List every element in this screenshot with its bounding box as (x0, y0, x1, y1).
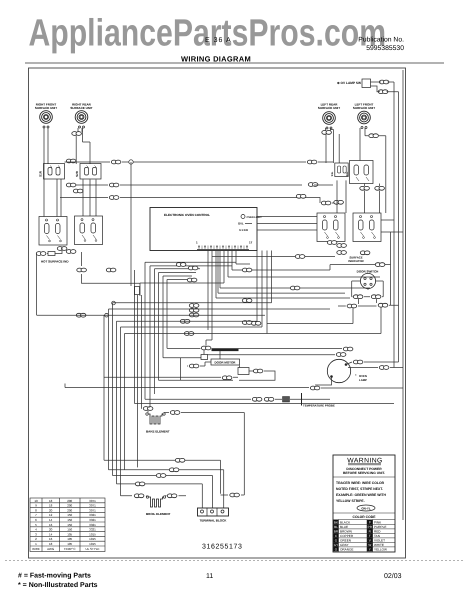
svg-text:5: 5 (35, 523, 37, 527)
svg-text:16: 16 (49, 537, 53, 541)
svg-text:14: 14 (49, 532, 53, 536)
svg-text:150: 150 (67, 513, 72, 517)
svg-text:TAN: TAN (374, 534, 380, 538)
svg-text:18: 18 (49, 499, 53, 503)
svg-text:TRACER WIRE: WIRE COLOR: TRACER WIRE: WIRE COLOR (336, 481, 385, 485)
svg-text:UL STYLE: UL STYLE (85, 547, 99, 551)
svg-text:12: 12 (49, 513, 53, 517)
svg-text:EXAMPLE: GREEN WIRE WITH: EXAMPLE: GREEN WIRE WITH (336, 493, 386, 497)
svg-text:8: 8 (35, 508, 37, 512)
svg-text:WIRE: WIRE (32, 547, 40, 551)
svg-text:HOT SURFACE IND: HOT SURFACE IND (41, 260, 69, 264)
svg-text:NOTED FIRST, STRIPE NEXT.: NOTED FIRST, STRIPE NEXT. (336, 487, 383, 491)
svg-text:P: P (369, 521, 371, 525)
svg-text:SURFACE UNIT: SURFACE UNIT (35, 106, 57, 110)
svg-text:WHITE: WHITE (374, 543, 384, 547)
svg-text:200: 200 (67, 499, 72, 503)
svg-text:6: 6 (35, 518, 37, 522)
svg-text:SURFACE UNIT: SURFACE UNIT (318, 106, 340, 110)
svg-text:VIOLET: VIOLET (374, 539, 385, 543)
svg-text:YELLOW STRIPE.: YELLOW STRIPE. (336, 499, 365, 503)
svg-text:02/03: 02/03 (384, 572, 402, 580)
svg-text:3.1 KΩ: 3.1 KΩ (239, 228, 249, 232)
svg-text:3321: 3321 (89, 518, 96, 522)
svg-text:3: 3 (35, 532, 37, 536)
svg-text:316255173: 316255173 (202, 544, 242, 551)
svg-text:PURPLE: PURPLE (374, 525, 386, 529)
svg-text:DOOR MOTOR: DOOR MOTOR (215, 361, 237, 365)
svg-text:3321: 3321 (89, 523, 96, 527)
svg-text:1015: 1015 (89, 537, 96, 541)
svg-text:17: 17 (249, 241, 253, 245)
svg-text:⊕ OV LAMP SW: ⊕ OV LAMP SW (337, 81, 361, 85)
svg-text:*: * (355, 373, 357, 378)
svg-text:BAKE ELEMENT: BAKE ELEMENT (146, 430, 170, 434)
svg-text:18: 18 (49, 504, 53, 508)
svg-text:105: 105 (67, 542, 72, 546)
svg-text:COLOR CODE: COLOR CODE (353, 515, 377, 519)
svg-text:Y: Y (369, 548, 371, 552)
svg-text:DOOR SWITCH: DOOR SWITCH (357, 269, 379, 273)
svg-text:BROIL ELEMENT: BROIL ELEMENT (146, 512, 171, 516)
svg-text:GN-YL: GN-YL (361, 507, 371, 511)
svg-text:SURFACE UNIT: SURFACE UNIT (353, 106, 375, 110)
svg-text:ORANGE: ORANGE (340, 548, 353, 552)
svg-text:9: 9 (35, 504, 37, 508)
svg-text:S1R: S1R (39, 170, 43, 177)
svg-text:BLUE: BLUE (340, 525, 348, 529)
svg-text:TERMINAL BLOCK: TERMINAL BLOCK (200, 519, 228, 523)
svg-text:20: 20 (49, 508, 53, 512)
svg-text:1015: 1015 (89, 532, 96, 536)
svg-text:AppliancePartsPros.com: AppliancePartsPros.com (28, 13, 386, 55)
svg-text:OVL: OVL (238, 222, 244, 226)
svg-text:200: 200 (67, 508, 72, 512)
svg-text:3071: 3071 (89, 499, 96, 503)
svg-text:3321: 3321 (89, 528, 96, 532)
svg-text:1: 1 (196, 241, 198, 245)
svg-text:S2R: S2R (75, 170, 79, 177)
svg-text:AWG: AWG (47, 547, 55, 551)
svg-text:1015: 1015 (89, 542, 96, 546)
svg-text:GREEN: GREEN (340, 539, 351, 543)
svg-text:S2L: S2L (346, 171, 349, 176)
svg-text:# = Fast-moving Parts: # = Fast-moving Parts (18, 572, 91, 580)
svg-text:SURFACE UNIT: SURFACE UNIT (70, 106, 92, 110)
svg-text:105: 105 (67, 532, 72, 536)
svg-text:5995385530: 5995385530 (366, 45, 404, 52)
svg-text:PR: PR (368, 525, 373, 529)
svg-text:150: 150 (67, 518, 72, 522)
svg-text:200: 200 (67, 504, 72, 508)
svg-text:150: 150 (67, 523, 72, 527)
svg-text:INDICATOR: INDICATOR (348, 259, 363, 263)
svg-text:BEFORE SERVICING UNIT.: BEFORE SERVICING UNIT. (343, 471, 385, 475)
svg-text:10: 10 (34, 499, 38, 503)
svg-text:COPPER: COPPER (340, 534, 354, 538)
svg-text:2: 2 (35, 537, 37, 541)
svg-text:7: 7 (35, 513, 37, 517)
svg-text:TEMPERATURE PROBE: TEMPERATURE PROBE (303, 404, 335, 408)
svg-text:GY: GY (334, 543, 338, 547)
svg-text:* = Non-Illustrated Parts: * = Non-Illustrated Parts (18, 581, 98, 589)
svg-text:PINK: PINK (374, 521, 382, 525)
svg-text:BROWN: BROWN (340, 530, 352, 534)
svg-text:18: 18 (49, 542, 53, 546)
svg-text:14: 14 (49, 518, 53, 522)
svg-text:E 36 A: E 36 A (205, 37, 232, 44)
svg-text:150: 150 (67, 528, 72, 532)
svg-text:BR: BR (334, 530, 339, 534)
svg-text:4: 4 (35, 528, 37, 532)
svg-text:1: 1 (35, 542, 37, 546)
svg-text:105: 105 (67, 537, 72, 541)
svg-text:11: 11 (206, 573, 213, 580)
svg-text:Publication No.: Publication No. (358, 37, 404, 44)
svg-text:RED: RED (374, 530, 381, 534)
svg-text:20: 20 (49, 528, 53, 532)
svg-text:BL: BL (334, 525, 338, 529)
svg-text:16: 16 (49, 523, 53, 527)
svg-text:W: W (368, 543, 371, 547)
svg-text:S1L: S1L (331, 171, 334, 176)
svg-text:3071: 3071 (89, 508, 96, 512)
svg-text:3071: 3071 (89, 504, 96, 508)
svg-text:LAMP: LAMP (359, 378, 367, 382)
svg-text:GRAY: GRAY (340, 543, 349, 547)
svg-text:WIRING DIAGRAM: WIRING DIAGRAM (181, 55, 251, 64)
svg-text:3321: 3321 (89, 513, 96, 517)
svg-text:BLACK: BLACK (340, 521, 351, 525)
svg-text:ELECTRONIC OVEN CONTROL: ELECTRONIC OVEN CONTROL (164, 213, 210, 217)
svg-text:T: T (369, 534, 371, 538)
svg-text:TEMP°C: TEMP°C (64, 547, 77, 551)
svg-text:YELLOW: YELLOW (374, 548, 387, 552)
